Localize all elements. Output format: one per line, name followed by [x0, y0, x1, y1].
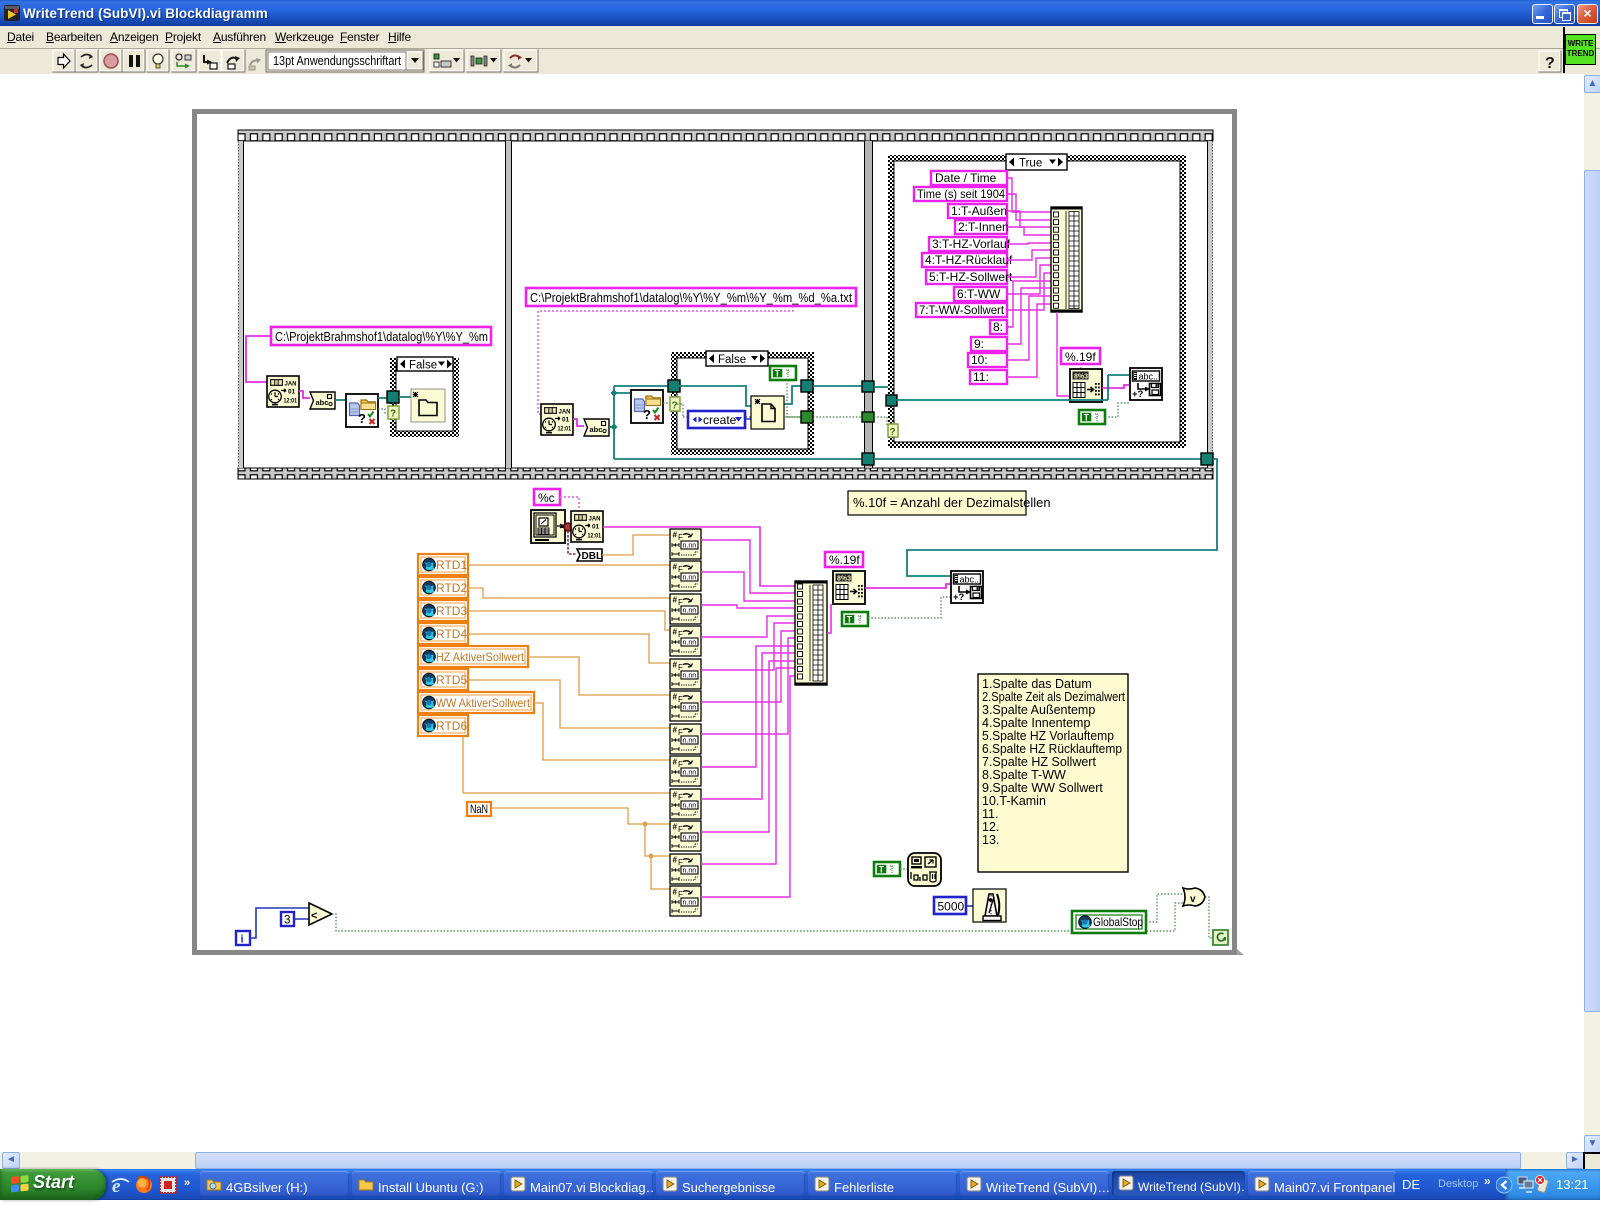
pause	[123, 50, 145, 72]
font selector	[266, 50, 424, 72]
wire %c to get date/time string	[560, 497, 579, 511]
firefox	[136, 1177, 152, 1193]
sequence left edge	[238, 141, 243, 468]
wire RTD3	[468, 611, 670, 630]
string constant 2:T-Innen	[955, 220, 1009, 234]
svg-text:RTD1: RTD1	[436, 558, 467, 572]
black divider + VI icon (WRITE TREND)	[1563, 27, 1565, 73]
concatenate strings node (frame 3)	[1051, 207, 1082, 312]
step icons	[172, 50, 196, 72]
wire RTD4	[468, 634, 670, 663]
string constant 5:T-HZ-Sollwert	[926, 270, 1013, 284]
wire timestamp to format	[573, 419, 584, 426]
tunnel teal case2 left	[668, 380, 680, 392]
string constant Date / Time	[931, 171, 1007, 185]
horizontal scrollbar	[0, 1152, 1600, 1169]
format into string (frame 3)	[1070, 369, 1102, 402]
iteration terminal i	[236, 931, 250, 946]
svg-text:1.Spalte das Datum: 1.Spalte das Datum	[982, 677, 1092, 691]
cleanup VI icon	[908, 853, 941, 886]
create file icon	[751, 396, 784, 429]
orange wires RTD to format nodes	[463, 565, 670, 889]
format & append number nodes column	[670, 529, 701, 559]
svg-text:6.Spalte HZ Rücklauftemp: 6.Spalte HZ Rücklauftemp	[982, 742, 1122, 756]
wire i to comparison	[250, 908, 309, 938]
svg-text:NaN: NaN	[470, 802, 488, 816]
svg-text:RTD4: RTD4	[436, 627, 467, 641]
svg-text:v: v	[1190, 894, 1196, 905]
case structure False (frame 1)	[390, 357, 459, 437]
taskbar	[0, 1169, 1600, 1200]
GlobalStop global variable	[1072, 911, 1146, 933]
boolean T constant (cleanup)	[874, 862, 900, 876]
dotted error wire to ? tunnel	[663, 402, 672, 404]
wire enum to create file icon (blue)	[745, 418, 751, 420]
svg-text:3:T-HZ-Vorlauf: 3:T-HZ-Vorlauf	[932, 237, 1011, 251]
window title bar	[0, 0, 1600, 26]
close button	[1577, 4, 1598, 24]
sequence divider frame1/frame2	[506, 141, 511, 468]
or gate	[1183, 888, 1205, 906]
boolean T constant (frame 3)	[1079, 410, 1105, 424]
svg-text:5000: 5000	[938, 900, 965, 914]
teal wire into write file	[896, 375, 1130, 400]
string constant %.19f (middle)	[825, 552, 863, 567]
concat output wire down to format	[1057, 312, 1070, 396]
format date/time string function	[310, 392, 335, 409]
dotted error wire inside case2	[677, 404, 801, 417]
NaN constant	[467, 802, 491, 816]
timestamp function	[267, 376, 299, 407]
teal wire loop right down to write-file 2	[907, 459, 1217, 576]
wire format2 to write file (magenta)	[865, 584, 951, 588]
RTD1 global	[418, 554, 468, 575]
string constant 4:T-HZ-Ruecklauf	[922, 253, 1013, 267]
svg-text:3.Spalte Außentemp: 3.Spalte Außentemp	[982, 703, 1095, 717]
svg-text:6:T-WW: 6:T-WW	[957, 287, 1001, 301]
create folder icon	[411, 389, 445, 422]
timestamp function (middle)	[571, 511, 603, 542]
string constant Time (s) seit 1904	[914, 187, 1007, 201]
string constant 11:	[970, 370, 1007, 384]
svg-text:<: <	[311, 910, 317, 922]
svg-text:7.Spalte HZ Sollwert: 7.Spalte HZ Sollwert	[982, 755, 1096, 769]
svg-text:C:\ProjektBrahmshof1\datalog\%: C:\ProjektBrahmshof1\datalog\%Y\%Y_%m	[275, 329, 488, 344]
RTD4 global	[418, 623, 468, 644]
teal wire inside case2	[678, 386, 801, 406]
wait ms metronome VI	[973, 889, 1006, 922]
svg-text:7:T-WW-Sollwert: 7:T-WW-Sollwert	[919, 303, 1005, 317]
wire timestamp to format date/time	[299, 391, 310, 398]
wire RTD2	[468, 588, 670, 598]
svg-text:False: False	[718, 354, 746, 366]
svg-text:2:T-Innen: 2:T-Innen	[958, 220, 1009, 234]
red app	[160, 1177, 176, 1193]
svg-text:11.: 11.	[982, 807, 998, 821]
wire error dotted green	[378, 409, 389, 413]
HZ AktiverSollwert global	[418, 646, 528, 667]
tunnel on sequence right border	[1201, 453, 1213, 465]
wire file check to case tunnel (teal)	[378, 397, 388, 399]
dotted wire %.19f to format	[1080, 364, 1082, 369]
svg-text:9.Spalte WW Sollwert: 9.Spalte WW Sollwert	[982, 781, 1103, 795]
write characters to file VI (frame 3)	[1130, 368, 1162, 400]
svg-text:11:: 11:	[973, 370, 989, 384]
RTD2 global	[418, 577, 468, 598]
string constant %c	[534, 489, 560, 505]
wire DBL to node1 (orange)	[602, 535, 670, 555]
divider tunnels	[862, 381, 874, 392]
dotted GlobalStop to or gate	[1146, 894, 1183, 922]
numeric constant 3	[281, 912, 294, 927]
svg-text:RTD2: RTD2	[436, 581, 467, 595]
svg-text:WW AktiverSollwert: WW AktiverSollwert	[436, 696, 531, 710]
svg-text:13pt Anwendungsschriftart: 13pt Anwendungsschriftart	[273, 53, 401, 68]
case structure False (frame 2)	[671, 351, 814, 455]
svg-text:%.19f: %.19f	[1065, 350, 1096, 364]
concatenate strings node (middle)	[795, 581, 827, 685]
svg-text:12.: 12.	[982, 820, 999, 834]
svg-text:4.Spalte Innentemp: 4.Spalte Innentemp	[982, 716, 1090, 730]
svg-text:Time (s) seit 1904: Time (s) seit 1904	[917, 187, 1005, 201]
wire WW AktiverSollwert	[534, 703, 670, 760]
teal wire case2 to divider tunnel	[813, 385, 865, 387]
tunnel green case2 right	[801, 411, 813, 423]
junction dots NaN wire	[643, 822, 648, 827]
wire RTD5	[468, 680, 670, 728]
svg-text:8:: 8:	[993, 320, 1003, 334]
comment box Spalte list	[978, 674, 1128, 872]
menu bar	[0, 26, 1600, 49]
tunnel teal on case3 left border	[886, 395, 897, 406]
tunnel teal case2 right	[801, 380, 813, 392]
svg-text:?: ?	[672, 401, 678, 412]
maroon wire to DBL conversion	[568, 531, 577, 554]
wire path constant to timestamp (string)	[246, 336, 271, 382]
case structure True (frame 3)	[888, 154, 1186, 448]
svg-text:10:: 10:	[971, 353, 988, 367]
svg-text:Date / Time: Date / Time	[935, 171, 997, 185]
lightbulb	[147, 50, 169, 72]
run continuous	[76, 50, 98, 72]
wire RTD1	[468, 564, 670, 566]
WW AktiverSollwert global	[418, 692, 534, 713]
boolean T constant (middle)	[842, 612, 868, 626]
run button	[53, 50, 75, 72]
boolean T constant case2	[770, 366, 796, 380]
long dotted wire to or gate	[332, 903, 1183, 931]
svg-text:i: i	[241, 934, 244, 946]
wire HZ AktiverSollwert	[528, 657, 670, 695]
junction dots	[610, 423, 617, 430]
svg-text:10.T-Kamin: 10.T-Kamin	[982, 794, 1046, 808]
svg-text:%.10f = Anzahl der Dezimalstel: %.10f = Anzahl der Dezimalstellen	[853, 495, 1051, 510]
magenta weave node outputs to concatenate	[701, 540, 795, 897]
svg-text:GlobalStop: GlobalStop	[1093, 915, 1143, 929]
tunnel teal on case border	[387, 391, 399, 403]
teal wire divider to case3	[874, 387, 890, 396]
svg-text:?: ?	[890, 427, 896, 438]
svg-text:13.: 13.	[982, 833, 999, 847]
tunnel ? selector	[388, 406, 399, 419]
teal wire under case3 to sequence tunnel	[874, 458, 1202, 460]
dotted or to loop condition	[1205, 897, 1213, 938]
wire format to write file (magenta)	[1102, 385, 1130, 388]
svg-text:%.19f: %.19f	[829, 553, 860, 567]
svg-text:2.Spalte Zeit als Dezimalwert: 2.Spalte Zeit als Dezimalwert	[982, 690, 1125, 704]
wire NaN	[491, 808, 670, 889]
ladder wires to concatenate	[1007, 178, 1051, 377]
create enum constant	[688, 411, 745, 428]
distribute dropdown	[467, 50, 501, 72]
svg-text:%c: %c	[538, 491, 555, 505]
svg-text:HZ AktiverSollwert: HZ AktiverSollwert	[436, 650, 525, 664]
vertical scrollbar	[1584, 74, 1600, 1152]
string constant 10:	[968, 353, 1007, 367]
svg-text:1:T-Außen: 1:T-Außen	[951, 204, 1007, 218]
green dotted wire case2 to divider tunnel	[813, 416, 865, 418]
green dotted wire divider to case3 selector	[874, 417, 887, 425]
path constant C:\...%d_%a.txt	[526, 288, 856, 306]
svg-text:DBL: DBL	[582, 551, 603, 562]
RTD5 global	[418, 669, 468, 690]
get date/time string function	[531, 510, 565, 543]
RTD6 global	[418, 715, 468, 736]
wire inside case to folder icon	[399, 396, 411, 398]
sequence top border band	[238, 130, 1213, 141]
teal wires from junction	[609, 386, 865, 459]
path constant C:\ProjektBrahmshof1\datalog\%Y\%Y_%m	[271, 327, 491, 345]
DBL conversion node	[577, 549, 602, 562]
svg-text:create: create	[703, 413, 737, 427]
format into string (middle)	[833, 571, 865, 604]
svg-text:5.Spalte HZ Vorlauftemp: 5.Spalte HZ Vorlauftemp	[982, 729, 1114, 743]
svg-text:RTD5: RTD5	[436, 673, 467, 687]
5000 constant	[934, 897, 966, 914]
string constant 9:	[971, 337, 1007, 351]
sequence divider frame2/frame3	[865, 141, 872, 468]
string constant %.19f (frame3)	[1061, 348, 1100, 364]
string constant 7:T-WW-Sollwert	[916, 303, 1007, 317]
check if file or folder exists VI	[346, 394, 378, 427]
dotted wire T to write file	[1105, 403, 1130, 417]
format date/time string frame2	[584, 419, 609, 436]
svg-text:RTD6: RTD6	[436, 719, 467, 733]
svg-text:4:T-HZ-Rücklauf: 4:T-HZ-Rücklauf	[925, 253, 1013, 267]
wire RTD6	[463, 736, 670, 793]
while loop corner shadow	[1237, 949, 1244, 955]
svg-text:RTD3: RTD3	[436, 604, 467, 618]
wire format to file check (teal)	[335, 399, 346, 401]
wire path constant down-left (dashed magenta)	[538, 306, 793, 414]
dotted wire T2 to write file	[868, 597, 951, 618]
write characters to file VI (middle)	[951, 571, 983, 603]
dotted T to cleanup VI	[900, 868, 908, 870]
string constant 1:T-Aussen	[948, 204, 1007, 218]
svg-text:C:\ProjektBrahmshof1\datalog\%: C:\ProjektBrahmshof1\datalog\%Y\%Y_%m\%Y…	[530, 290, 852, 305]
case3 selector terminal ?	[888, 424, 898, 437]
wire timestamp string to concat row1 (magenta)	[603, 527, 795, 586]
string constant 8:	[990, 320, 1007, 334]
maximize button	[1554, 4, 1575, 24]
reorder dropdown	[504, 50, 538, 72]
svg-text:?: ?	[390, 409, 396, 420]
svg-text:False: False	[409, 360, 437, 372]
coercion dot	[564, 523, 572, 531]
svg-text:?: ?	[1545, 55, 1555, 72]
sequence right edge	[1208, 141, 1213, 468]
help button	[1539, 51, 1561, 72]
comment %.10f = Anzahl der Dezimalstellen	[848, 491, 1051, 515]
string constant 3:T-HZ-Vorlauf	[929, 237, 1011, 251]
toolbar	[0, 49, 1600, 75]
svg-text:5:T-HZ-Sollwert: 5:T-HZ-Sollwert	[929, 270, 1013, 284]
concat2 output wire	[827, 604, 831, 633]
RTD3 global	[418, 600, 468, 621]
while loop border	[192, 109, 1237, 955]
abort (disabled red)	[100, 50, 122, 72]
svg-text:8.Spalte T-WW: 8.Spalte T-WW	[982, 768, 1066, 782]
string constant ladder	[914, 171, 1013, 384]
dotted wire from T down to tunnel	[787, 380, 801, 417]
svg-text:3: 3	[284, 915, 290, 927]
dotted %.19f to format	[844, 567, 846, 572]
less-than comparison node	[309, 903, 332, 925]
string constant 6:T-WW	[954, 287, 1007, 301]
svg-text:9:: 9:	[974, 337, 984, 351]
wire 5000 to wait	[966, 905, 973, 907]
svg-text:True: True	[1019, 158, 1042, 170]
sequence bottom border band	[238, 468, 1213, 479]
step out (disabled)	[250, 61, 258, 66]
align dropdown	[430, 50, 464, 72]
check file exists frame2	[631, 390, 663, 423]
tunnel ? case2 left	[670, 397, 680, 411]
minimize button	[1532, 4, 1553, 24]
timestamp function frame2	[541, 404, 573, 435]
loop condition terminal	[1213, 930, 1228, 945]
